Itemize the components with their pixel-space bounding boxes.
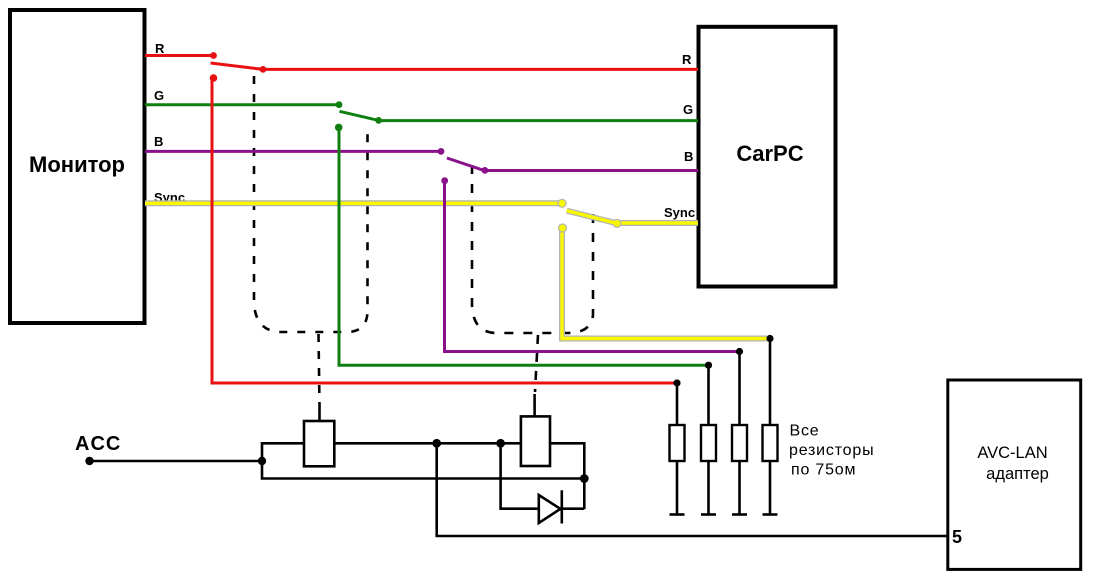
wire Sync to CarPC	[616, 220, 698, 226]
node junction diode left	[496, 439, 505, 448]
wire Sync from monitor	[145, 200, 562, 206]
wire B tap vertical and to resistor	[445, 181, 740, 352]
svg-text:CarPC: CarPC	[736, 141, 803, 166]
wire R from monitor	[145, 54, 214, 57]
node dot yellow at resistor R4	[766, 335, 773, 342]
svg-text:Все: Все	[790, 423, 820, 440]
relay coil K2	[521, 394, 550, 466]
svg-text:B: B	[684, 149, 693, 164]
node dot purple at resistor R3	[736, 348, 743, 355]
switch S1 blade R	[210, 52, 267, 82]
svg-text:G: G	[683, 102, 693, 117]
resistor R4 75om	[763, 339, 778, 515]
resistor R1 75om	[670, 383, 685, 515]
svg-text:резисторы: резисторы	[789, 442, 874, 459]
diode D1	[539, 490, 562, 523]
monitor box	[10, 10, 145, 323]
svg-text:Sync: Sync	[664, 205, 695, 220]
switch S4 blade Sync	[557, 199, 621, 233]
wire G tap vertical and to resistor	[339, 127, 709, 365]
svg-text:AVC-LAN: AVC-LAN	[977, 444, 1047, 462]
svg-text:G: G	[154, 88, 164, 103]
CarPC box	[699, 27, 836, 287]
wire G to CarPC	[378, 119, 698, 122]
relay coil K1	[304, 406, 334, 466]
wire relay K2 right side down	[550, 443, 584, 509]
dashed linkage U1	[254, 76, 368, 332]
node junction to AVC-LAN	[432, 439, 441, 448]
svg-text:ACC: ACC	[75, 433, 121, 455]
dashed linkage drop to relay K1	[319, 334, 320, 406]
resistor R2 75om	[701, 365, 716, 514]
switch S3 blade B	[438, 148, 489, 184]
wire R tap vertical and to resistor	[212, 78, 677, 383]
wire diode branch	[501, 443, 585, 508]
wire relay K1 to junction	[334, 442, 521, 445]
wire node to relay rail top	[262, 443, 304, 461]
svg-text:R: R	[682, 52, 692, 67]
wire B from monitor	[145, 150, 441, 153]
node ACC dot	[85, 457, 93, 465]
wire to AVC-LAN pin 5	[437, 443, 947, 536]
wire Sync tap vertical and to resistor	[562, 228, 770, 339]
svg-text:R: R	[155, 41, 165, 56]
svg-text:по 75ом: по 75ом	[791, 462, 856, 479]
wire R to CarPC	[262, 68, 698, 71]
resistor R3 75om	[732, 352, 747, 515]
wire node to bottom rail	[262, 461, 584, 479]
node dot green at resistor R2	[705, 362, 712, 369]
dashed linkage drop to relay K2	[535, 335, 538, 392]
switch S2 blade G	[335, 101, 382, 131]
node dot red at resistor R1	[673, 379, 680, 386]
label resistors value	[789, 423, 874, 479]
svg-text:Монитор: Монитор	[29, 152, 125, 177]
wire ACC input	[90, 460, 263, 463]
node bottom rail end junction	[580, 474, 589, 483]
node relay input junction	[258, 457, 266, 465]
wire G from monitor	[145, 103, 339, 106]
svg-text:адаптер: адаптер	[986, 465, 1049, 483]
svg-text:5: 5	[952, 527, 962, 547]
dashed linkage U2	[472, 165, 593, 333]
AVC-LAN adapter box	[948, 380, 1081, 569]
wire B to CarPC	[484, 169, 698, 172]
svg-text:B: B	[154, 134, 163, 149]
